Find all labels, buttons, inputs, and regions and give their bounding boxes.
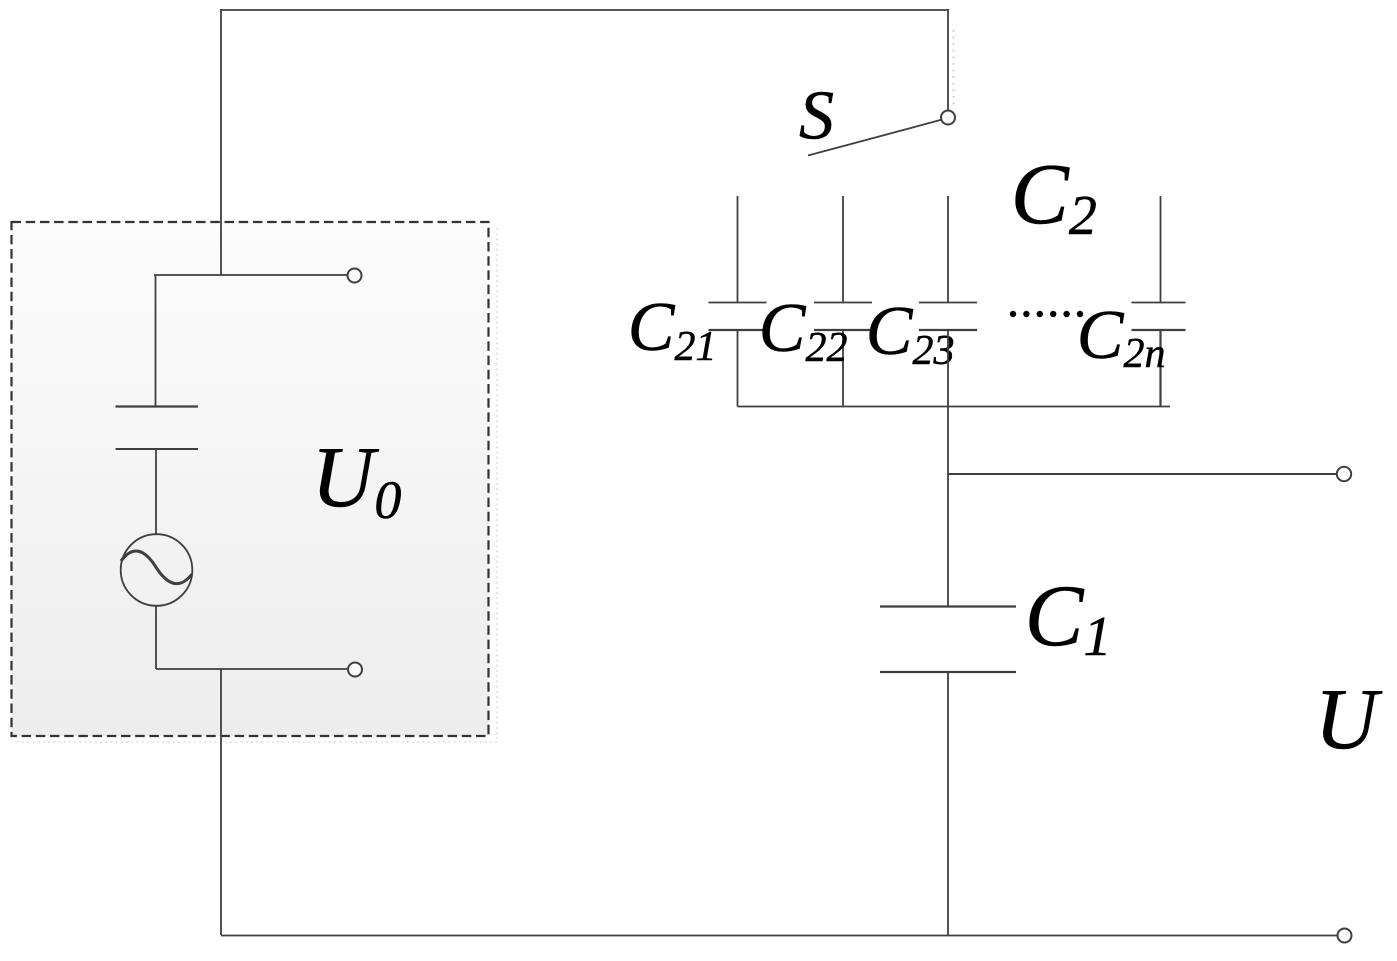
capacitor C21 top lead xyxy=(737,196,739,302)
wire bottom bus xyxy=(221,935,1338,937)
capacitor C23 top lead xyxy=(947,196,949,302)
svg-text:U: U xyxy=(1315,670,1383,767)
terminal node box top output xyxy=(348,269,362,283)
terminal node box bottom output xyxy=(348,663,362,677)
dashed box U0 source block xyxy=(12,222,498,742)
capacitor in U0 box bottom plate xyxy=(116,448,199,450)
capacitor C2n bottom lead xyxy=(1159,330,1161,407)
wire C2 bank bottom bus xyxy=(738,406,1171,408)
dotted ellipsis between C23 and C2n xyxy=(1010,311,1083,317)
terminal node output top xyxy=(1337,467,1351,481)
capacitor C21 bottom lead xyxy=(737,330,739,407)
wire box output bottom horizontal xyxy=(156,668,348,670)
capacitor C22 plates xyxy=(814,302,872,304)
wire source branch upper xyxy=(155,275,157,406)
svg-text:S: S xyxy=(799,78,834,155)
wire left vertical lower xyxy=(220,669,222,935)
wire capacitor to AC source xyxy=(155,449,157,535)
wire box output top horizontal xyxy=(154,274,348,276)
wire main vertical bus to C1 xyxy=(947,330,949,606)
capacitor C2n plates xyxy=(1132,302,1186,304)
wire left vertical upper xyxy=(220,9,222,275)
wire switch feed vertical xyxy=(947,9,949,111)
capacitor C1 bottom plate xyxy=(880,671,1016,673)
wire output tap horizontal xyxy=(948,473,1337,475)
AC source sine wave xyxy=(121,551,192,584)
capacitor C21 plates xyxy=(709,302,767,304)
wire C1 to bottom bus xyxy=(947,672,949,935)
capacitor C2n top lead xyxy=(1160,196,1162,302)
capacitor C1 top plate xyxy=(880,605,1016,607)
capacitor C23 plates xyxy=(919,302,977,304)
wire AC source to bottom rail xyxy=(155,606,157,669)
capacitor in U0 box top plate xyxy=(116,405,199,407)
capacitor C22 top lead xyxy=(842,196,844,302)
wire switch feed shadow xyxy=(953,30,955,106)
capacitor C22 bottom lead xyxy=(842,330,844,407)
terminal node output bottom xyxy=(1338,929,1352,943)
wire top bus xyxy=(221,9,948,11)
AC source circle xyxy=(121,534,193,606)
switch S arm xyxy=(808,120,941,156)
switch S hinge terminal xyxy=(941,111,955,125)
